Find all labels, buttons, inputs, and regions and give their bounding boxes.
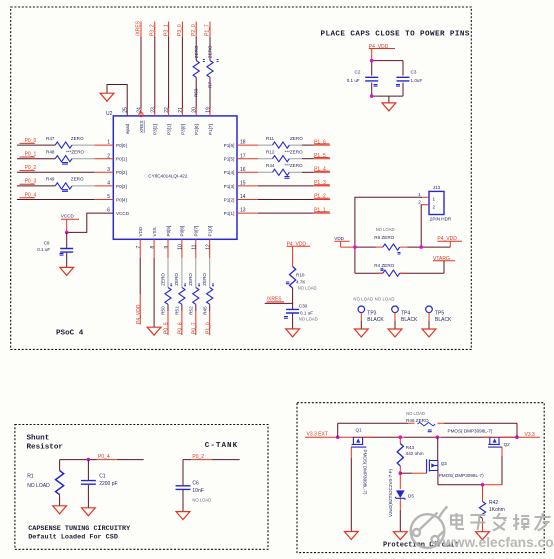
svg-text:R7: R7: [208, 82, 213, 88]
testpoint TP3 BLACK: [358, 306, 384, 329]
wire R43 node to Q3 gate: [400, 472, 412, 474]
wire row13 / node P1_1: [237, 207, 330, 213]
svg-text:1.0uF: 1.0uF: [411, 78, 423, 83]
svg-text:ZERO: ZERO: [290, 136, 303, 141]
svg-text:Vzw2(BZT52C2V0-7-F): Vzw2(BZT52C2V0-7-F): [388, 469, 393, 517]
ground (TP5): [422, 329, 436, 337]
svg-text:NO LOAD NO LOAD: NO LOAD NO LOAD: [353, 297, 394, 302]
svg-text:PMOS( DMP3098L-7): PMOS( DMP3098L-7): [448, 429, 493, 434]
transistor Q3 PMOS (DMP3098L-7): [427, 459, 485, 478]
svg-text:www.elecfans.com: www.elecfans.com: [442, 535, 554, 550]
svg-text:P1_3: P1_3: [314, 180, 326, 186]
ground (C9): [60, 267, 74, 275]
svg-text:***ZERO: ***ZERO: [285, 150, 304, 155]
svg-text:Resistor: Resistor: [27, 444, 64, 452]
svg-text:R6 ZERO: R6 ZERO: [374, 235, 394, 240]
svg-text:22: 22: [164, 107, 170, 113]
wire row15 / node P1_3: [237, 180, 330, 186]
svg-text:PLACE CAPS CLOSE TO POWER PINS: PLACE CAPS CLOSE TO POWER PINS: [321, 31, 470, 39]
svg-text:Shunt: Shunt: [27, 435, 50, 443]
svg-text:ZERO: ZERO: [71, 136, 84, 141]
svg-text:BLACK: BLACK: [435, 317, 452, 323]
svg-text:P0_6: P0_6: [178, 322, 184, 334]
svg-text:21: 21: [178, 107, 184, 113]
svg-text:TP3: TP3: [367, 311, 376, 317]
svg-text:C6: C6: [192, 481, 199, 487]
svg-text:C30: C30: [299, 304, 308, 309]
wire C30 to gnd: [292, 314, 294, 329]
svg-text:1: 1: [433, 197, 436, 202]
node /XRES (tap): [265, 297, 293, 304]
svg-text:R4 ZERO: R4 ZERO: [374, 263, 394, 268]
svg-text:R48: R48: [46, 150, 55, 155]
svg-text:NO LOAD: NO LOAD: [298, 286, 317, 291]
node P0_3 / wire row4: [17, 179, 113, 186]
node VCCD / wire pin6: [61, 213, 114, 234]
svg-text:***ZERO: ***ZERO: [285, 163, 304, 168]
capacitor C3 1.0uF: [396, 70, 422, 87]
capacitor C30 0.1 uF NO LOAD: [284, 304, 318, 322]
svg-text:ZERO: ZERO: [160, 273, 165, 286]
svg-text:0.1 uF: 0.1 uF: [300, 311, 313, 316]
svg-text:P3_1: P3_1: [163, 24, 169, 36]
resistor R43 442 ohm: [397, 437, 424, 473]
svg-text:***ZERO: ***ZERO: [66, 150, 85, 155]
resistor R53 (ZERO): [193, 45, 205, 97]
svg-text:C-TANK: C-TANK: [205, 442, 238, 450]
svg-text:R46 ZERO: R46 ZERO: [406, 418, 429, 423]
svg-text:R49: R49: [46, 177, 55, 182]
svg-text:NO LOAD: NO LOAD: [376, 227, 395, 232]
svg-text:D5: D5: [408, 494, 414, 499]
svg-text:8: 8: [150, 246, 156, 249]
wire pin19 P1_7: [209, 22, 211, 116]
capacitor C1 2200 pF: [81, 460, 118, 508]
svg-text:P1[6]: P1[6]: [224, 143, 235, 148]
wire Q2 gate down: [501, 447, 503, 456]
ground (TP4): [388, 329, 402, 337]
wire pin9 / resistor R50 ZERO / node P0_5: [160, 239, 172, 335]
wire pin11 / resistor R52 ZERO / node P0_7: [188, 239, 200, 335]
svg-text:PMOS( DMP3098L-7): PMOS( DMP3098L-7): [439, 473, 484, 478]
connector J13 2PIN HDR: [418, 185, 452, 222]
ground (caps C2/C3): [382, 103, 396, 111]
node VDD: [334, 236, 355, 247]
svg-text:NO LOAD: NO LOAD: [192, 497, 211, 502]
svg-text:23: 23: [150, 107, 156, 113]
wire Q1 gate to gnd: [350, 447, 352, 458]
svg-text:P1[3]: P1[3]: [224, 184, 235, 189]
svg-text:NO LOAD: NO LOAD: [406, 411, 425, 416]
dashed border: PSoC 4 block: [11, 7, 472, 349]
resistor R1 NO LOAD: [27, 471, 63, 495]
node P4_VDD (R10 branch): [287, 241, 311, 266]
svg-text:P1[7]: P1[7]: [208, 124, 213, 135]
svg-text:C2: C2: [355, 70, 361, 75]
resistor R6 ZERO (NO LOAD): [374, 227, 407, 254]
op-amp? no: IC U2 CY8C4014LQI-422 body: [106, 111, 237, 239]
svg-text:NO LOAD: NO LOAD: [299, 316, 318, 321]
svg-text:ZERO: ZERO: [208, 45, 213, 58]
svg-text:PSoC 4: PSoC 4: [56, 330, 84, 338]
svg-text:XRES: XRES: [139, 120, 144, 133]
svg-text:ZERO: ZERO: [202, 273, 207, 286]
svg-text:U2: U2: [106, 111, 113, 117]
svg-text:R42: R42: [489, 500, 498, 506]
svg-text:ZERO: ZERO: [71, 177, 84, 182]
svg-text:R53: R53: [194, 88, 199, 97]
svg-text:R43: R43: [406, 445, 415, 450]
U2 left pin names: [116, 143, 130, 216]
svg-text:2PIN HDR: 2PIN HDR: [430, 217, 452, 222]
wire row16 / resistor R44 ZERO / node P1_4: [237, 163, 330, 178]
wire row18 / resistor R11 ZERO / node P1_6: [237, 136, 330, 148]
svg-text:Default Loaded For CSD: Default Loaded For CSD: [28, 534, 118, 542]
svg-text:P3[0]: P3[0]: [180, 124, 185, 135]
svg-text:R47: R47: [46, 136, 55, 141]
ground (TP3): [354, 329, 368, 337]
svg-text:V3.3 EXT: V3.3 EXT: [307, 431, 328, 437]
svg-text:epad: epad: [125, 123, 130, 134]
svg-text:R12: R12: [266, 150, 275, 155]
ground (C6): [176, 512, 190, 520]
svg-text:/XRES: /XRES: [136, 20, 142, 36]
svg-text:V3.3: V3.3: [525, 432, 536, 438]
resistor R47 ZERO: [46, 136, 84, 148]
svg-text:R11: R11: [266, 136, 275, 141]
wire cap loop: [372, 61, 403, 103]
svg-text:PMOS( DMP3098L-7): PMOS( DMP3098L-7): [363, 450, 368, 495]
wire Q3 drain up to rail: [437, 437, 439, 460]
svg-text:P0[1]: P0[1]: [116, 157, 127, 162]
svg-text:Q1: Q1: [356, 428, 363, 433]
ground (Q1): [344, 532, 358, 540]
resistor R10 4.7K NO LOAD: [286, 267, 317, 291]
svg-text:ZERO: ZERO: [188, 273, 193, 286]
svg-text:C9: C9: [44, 241, 50, 246]
resistor R46 ZERO NO LOAD: [406, 411, 435, 432]
svg-text:9: 9: [164, 246, 170, 249]
svg-text:R10: R10: [296, 273, 305, 278]
node V3.3 EXT: [305, 431, 338, 437]
junction dots: [370, 59, 374, 63]
svg-text:P1_7: P1_7: [205, 24, 211, 36]
svg-text:P0[0]: P0[0]: [116, 143, 127, 148]
svg-text:R51: R51: [174, 306, 179, 315]
ground (C1): [82, 508, 96, 516]
svg-text:P1_6: P1_6: [314, 139, 326, 145]
svg-text:BLACK: BLACK: [401, 317, 418, 323]
svg-text:P4_VDD: P4_VDD: [136, 304, 142, 324]
U2 bottom pin numbers 7-12 (rotated): [136, 244, 212, 250]
ground (D5): [393, 532, 407, 540]
node P0_2 (c-tank): [191, 454, 212, 460]
wire R46 bypass top: [338, 423, 517, 437]
wire pin12 / resistor R45 ZERO / node P1_0: [202, 239, 214, 335]
svg-text:P1[5]: P1[5]: [224, 157, 235, 162]
svg-text:2: 2: [433, 204, 436, 209]
capacitor C6 10nF NO LOAD: [176, 481, 212, 503]
svg-text:P0_2: P0_2: [192, 454, 204, 460]
ground (VSS): [147, 327, 161, 335]
wire pin24 /XRES: [140, 22, 142, 116]
svg-text:R50: R50: [161, 306, 166, 315]
ground (R1): [53, 506, 67, 514]
capacitor C2 0.1 uF: [347, 70, 379, 87]
svg-text:R44: R44: [266, 163, 275, 168]
U2 right pin names: [224, 143, 235, 216]
wire pin20 P2_0: [195, 22, 197, 116]
wire Q3 source down: [438, 471, 483, 485]
wire pin23 P3_2: [154, 22, 156, 116]
svg-text:P0_7: P0_7: [192, 322, 198, 334]
svg-text:P1_0: P1_0: [205, 322, 211, 334]
U2 left pin numbers 1-6: [107, 140, 110, 214]
wire R10 to C30: [292, 288, 294, 309]
svg-text:1Kohm: 1Kohm: [489, 507, 505, 513]
svg-text:4.7K: 4.7K: [296, 280, 306, 285]
svg-text:TP4: TP4: [401, 311, 410, 317]
svg-text:P1[2]: P1[2]: [224, 197, 235, 202]
svg-text:11: 11: [192, 244, 198, 249]
svg-text:P0[5]: P0[5]: [166, 226, 171, 237]
svg-text:ZERO: ZERO: [174, 273, 179, 286]
wire pin10 / resistor R51 ZERO / node P0_6: [174, 239, 186, 335]
svg-text:R45: R45: [202, 306, 207, 315]
wire C6 to gnd: [182, 490, 184, 512]
wire pin7 VDD / node P4_VDD: [136, 239, 142, 324]
wire c-tank row: [183, 460, 240, 486]
svg-text:7: 7: [136, 246, 142, 249]
svg-text:TP5: TP5: [435, 311, 444, 317]
svg-text:VSS: VSS: [152, 227, 157, 236]
resistor R49 ZERO: [46, 177, 84, 192]
resistor R4 ZERO: [355, 263, 444, 276]
resistor R48 ZERO: [46, 150, 85, 165]
svg-text:VDD: VDD: [334, 236, 344, 241]
svg-text:P2_0: P2_0: [191, 24, 197, 36]
svg-text:0.1 uF: 0.1 uF: [347, 78, 360, 83]
svg-text:P1_2: P1_2: [314, 194, 326, 200]
svg-text:R52: R52: [188, 306, 193, 315]
node P0_4 / wire row5: [17, 192, 113, 199]
svg-text:442 ohm: 442 ohm: [406, 451, 424, 456]
dashed border: protection circuit block: [297, 403, 544, 553]
svg-text:C3: C3: [411, 70, 417, 75]
svg-text:P3[2]: P3[2]: [153, 124, 158, 135]
resistor R42 1Kohm: [479, 485, 504, 532]
testpoint TP5 BLACK: [426, 306, 452, 329]
transistor Q2 PMOS (DMP3098L-7): [448, 429, 511, 447]
wire J13 pin2 to P4_VDD node: [421, 205, 422, 247]
ground (epad pin 25): [100, 85, 127, 116]
svg-text:J13: J13: [433, 185, 441, 190]
svg-text:BLACK: BLACK: [367, 317, 384, 323]
node VTARG: [433, 256, 455, 273]
svg-text:Q2: Q2: [504, 442, 511, 447]
svg-text:P1[0]: P1[0]: [208, 226, 213, 237]
svg-text:P0[6]: P0[6]: [180, 226, 185, 237]
U2 top pin numbers 25-19 (rotated): [123, 107, 212, 113]
svg-text:P1[4]: P1[4]: [224, 170, 235, 175]
wire R1 to gnd: [59, 495, 61, 506]
node P0_4 (shunt): [97, 454, 118, 460]
svg-text:20: 20: [192, 107, 198, 113]
watermark logo (elecfans): [411, 507, 448, 548]
svg-text:P1_5: P1_5: [314, 153, 326, 159]
wire row14 / node P1_2: [237, 194, 330, 200]
testpoint TP4 BLACK: [392, 306, 418, 329]
svg-text:P0_5: P0_5: [164, 322, 170, 334]
svg-text:P1_4: P1_4: [314, 167, 326, 173]
svg-text:0.1 uF: 0.1 uF: [37, 247, 50, 252]
diode D5 zener Vzw2(BZT52C2V0-7-F): [388, 469, 415, 532]
node P4_VDD (right): [437, 236, 462, 247]
node P0_1 / wire row2: [17, 152, 113, 159]
svg-text:P1_1: P1_1: [314, 207, 326, 213]
wire pin21 P3_0: [181, 22, 183, 116]
svg-text:P0[2]: P0[2]: [116, 170, 127, 175]
dashed border: CapSense tuning block: [15, 425, 268, 550]
svg-text:P0[7]: P0[7]: [194, 226, 199, 237]
U2 bottom pin names (rotated): [138, 226, 213, 237]
svg-text:VCCD: VCCD: [116, 211, 130, 216]
svg-text:CY8C4014LQI-422: CY8C4014LQI-422: [148, 173, 188, 178]
svg-text:10nF: 10nF: [192, 488, 203, 494]
svg-text:19: 19: [206, 107, 212, 113]
svg-text:P1[1]: P1[1]: [224, 211, 235, 216]
capacitor C9 0.1 uF: [37, 232, 73, 267]
svg-text:CAPSENSE TUNING CIRCUITRY: CAPSENSE TUNING CIRCUITRY: [28, 525, 131, 533]
svg-text:P3[1]: P3[1]: [167, 124, 172, 135]
svg-text:P0[3]: P0[3]: [116, 184, 127, 189]
wire row17 / resistor R12 ZERO / node P1_5: [237, 150, 330, 162]
svg-text:P0[4]: P0[4]: [116, 197, 127, 202]
wire pin8 VSS: [153, 239, 155, 258]
wire J13 pin1 to VDD node: [355, 197, 422, 247]
svg-text:Q3: Q3: [441, 461, 448, 466]
node P0_0 / wire row1: [17, 138, 113, 145]
U2 top pin names (rotated): [125, 120, 213, 135]
no-connect circle on pin 24: [139, 113, 143, 117]
svg-text:25: 25: [123, 107, 129, 113]
svg-text:NO LOAD: NO LOAD: [27, 483, 50, 489]
ground (C30): [286, 329, 300, 337]
svg-text:2: 2: [418, 200, 421, 205]
power rail wire: [353, 436, 517, 438]
svg-text:12: 12: [206, 244, 212, 250]
wire VDD row: [355, 247, 450, 273]
svg-text:R1: R1: [27, 473, 34, 479]
node P0_2 / wire row3: [17, 165, 113, 172]
svg-text:C1: C1: [99, 473, 106, 479]
watermark text 电子发烧友 (pseudo-glyphs): [451, 513, 551, 531]
svg-text:2200 pF: 2200 pF: [99, 481, 117, 487]
ground (R42): [476, 532, 490, 540]
svg-text:VCCD: VCCD: [61, 214, 75, 219]
U2 right pin numbers 18-13: [240, 140, 246, 214]
svg-text:VDD: VDD: [138, 226, 143, 236]
svg-text:ZERO: ZERO: [194, 45, 199, 58]
resistor R7 (ZERO): [207, 45, 219, 88]
svg-text:1: 1: [418, 192, 421, 197]
node P4_VDD (top caps): [369, 44, 395, 61]
svg-text:P2[0]: P2[0]: [194, 124, 199, 135]
svg-text:24: 24: [137, 107, 143, 113]
wire shunt row: [60, 460, 144, 471]
svg-text:P3_0: P3_0: [177, 24, 183, 36]
transistor Q1 PMOS (DMP3098L-7): [351, 428, 368, 495]
wire pin22 P3_1: [168, 22, 170, 116]
svg-text:P3_2: P3_2: [150, 24, 156, 36]
svg-text:10: 10: [178, 244, 184, 250]
